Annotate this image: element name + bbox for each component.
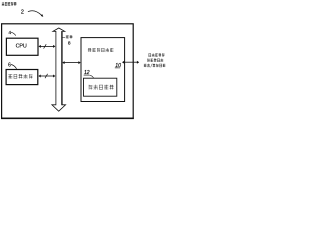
svg-text:4: 4 <box>8 30 11 36</box>
svg-text:8: 8 <box>68 41 71 47</box>
svg-text:CPU: CPU <box>16 43 27 49</box>
svg-text:2: 2 <box>21 10 24 16</box>
svg-text:6: 6 <box>8 62 11 68</box>
